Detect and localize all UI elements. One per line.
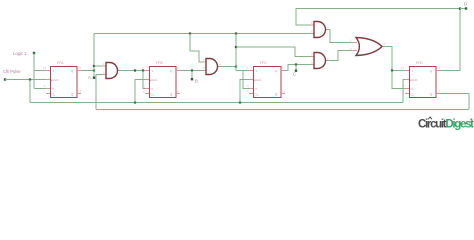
svg-text:C: C bbox=[293, 72, 296, 77]
svg-text:2: 2 bbox=[403, 90, 405, 94]
svg-text:6: 6 bbox=[311, 30, 313, 34]
svg-text:3: 3 bbox=[384, 42, 386, 46]
wire D terminal spur bbox=[460, 8, 466, 10]
svg-text:K: K bbox=[53, 87, 55, 91]
wire A vertical up bbox=[93, 34, 95, 71]
svg-text:CL: CL bbox=[52, 93, 56, 97]
wire AND4 output to OR input2 bbox=[325, 51, 352, 61]
junction clock bus at FFB riser bbox=[134, 101, 136, 103]
wire A branch to AND1 input1 bbox=[94, 65, 102, 67]
svg-text:2: 2 bbox=[246, 66, 248, 70]
flip-flop FFA box bbox=[43, 61, 82, 98]
junction AND2 out joins vertical bbox=[235, 65, 237, 67]
node D terminal dot bbox=[465, 7, 467, 9]
svg-text:1: 1 bbox=[403, 84, 405, 88]
wire FFB J-K tie bbox=[143, 71, 145, 89]
flip-flop FFC box bbox=[246, 61, 286, 98]
svg-text:1: 1 bbox=[103, 62, 105, 66]
node A terminal dot bbox=[93, 77, 95, 79]
wire QB to AND2 input2 bbox=[180, 70, 202, 72]
junction AB takeoff on vertical bbox=[235, 46, 237, 48]
junction clock bus at FFC riser bbox=[239, 101, 241, 103]
node Logic 1 terminal dot bbox=[33, 52, 35, 54]
svg-text:15: 15 bbox=[282, 90, 286, 94]
wire Clk Pulse to FFA CLK bbox=[5, 79, 46, 81]
svg-text:Clk Pulse: Clk Pulse bbox=[3, 69, 21, 74]
wire A drop to AND2 input1 bbox=[190, 34, 202, 63]
svg-text:K: K bbox=[256, 87, 258, 91]
svg-text:5: 5 bbox=[203, 58, 205, 62]
svg-text:2: 2 bbox=[103, 71, 105, 75]
node A terminal stub bbox=[93, 71, 95, 78]
wire clock riser FFC bbox=[240, 80, 249, 103]
and-gate U1 (A and Dbar) bbox=[102, 62, 121, 79]
svg-text:3: 3 bbox=[119, 67, 121, 71]
and-gate U2 (A and B) bbox=[202, 58, 221, 75]
junction A-line tap for AND2 bbox=[189, 32, 191, 34]
junction AND1 out at FFB tie bbox=[142, 69, 144, 71]
svg-text:FFD: FFD bbox=[416, 61, 423, 65]
svg-text:6: 6 bbox=[203, 67, 205, 71]
node Clk Pulse terminal dot bbox=[4, 78, 6, 80]
svg-text:10: 10 bbox=[143, 90, 147, 94]
wire FFC J-K tie bbox=[243, 71, 249, 89]
svg-text:▸CLK: ▸CLK bbox=[150, 78, 157, 82]
junction crossing clock riser bbox=[134, 69, 136, 71]
node B terminal stub bbox=[191, 71, 193, 80]
svg-text:FFA: FFA bbox=[57, 61, 64, 65]
svg-text:6: 6 bbox=[177, 90, 179, 94]
svg-text:2: 2 bbox=[44, 90, 46, 94]
junction C node bbox=[295, 63, 297, 65]
flip-flop FFD box bbox=[401, 61, 441, 98]
wire clock bus bbox=[30, 102, 403, 104]
svg-text:4: 4 bbox=[219, 63, 221, 67]
junction QA node bbox=[93, 69, 95, 71]
svg-text:3: 3 bbox=[247, 84, 249, 88]
svg-text:1: 1 bbox=[44, 84, 46, 88]
junction FFD J-K tie bbox=[391, 69, 393, 71]
svg-text:13: 13 bbox=[78, 90, 82, 94]
wire A distribution line top bbox=[94, 33, 310, 35]
wire vertical x236 down to FFC J bbox=[236, 34, 249, 71]
svg-text:1: 1 bbox=[350, 39, 352, 43]
svg-text:D: D bbox=[464, 2, 467, 7]
svg-text:CircuitDigest: CircuitDigest bbox=[418, 119, 474, 131]
wire AND2 output to FFC feed vertical bbox=[218, 66, 236, 68]
svg-text:FFB: FFB bbox=[156, 61, 163, 65]
node B terminal dot bbox=[191, 78, 193, 80]
wire OR output to FFD J bbox=[382, 47, 405, 71]
wire FFD K tie bbox=[392, 71, 405, 89]
wire QC to AND4 input2 bbox=[285, 65, 311, 71]
wire D feedback top line bbox=[296, 9, 460, 26]
svg-text:1: 1 bbox=[282, 66, 284, 70]
junction A branch to AND1 bbox=[93, 65, 95, 67]
wire QA output bbox=[81, 70, 94, 72]
flip-flop FFB box bbox=[142, 61, 180, 98]
or-gate U5 bbox=[350, 38, 386, 56]
and-gate U4 (AB and C) bbox=[311, 53, 329, 69]
svg-text:5: 5 bbox=[311, 21, 313, 25]
svg-text:FFC: FFC bbox=[260, 61, 267, 65]
svg-text:K: K bbox=[412, 87, 414, 91]
logo CircuitDigest bbox=[418, 117, 474, 131]
junction clock branch bbox=[29, 78, 31, 80]
svg-text:9: 9 bbox=[143, 84, 145, 88]
wire AND1 output to FFB J bbox=[118, 70, 146, 72]
svg-text:12: 12 bbox=[78, 66, 82, 70]
svg-text:A: A bbox=[88, 75, 91, 80]
svg-text:14: 14 bbox=[43, 66, 47, 70]
node C terminal stub bbox=[295, 65, 297, 71]
svg-text:8: 8 bbox=[327, 57, 329, 61]
svg-text:4: 4 bbox=[247, 90, 249, 94]
svg-text:▸CLK: ▸CLK bbox=[410, 78, 417, 82]
wire AND3 output to OR input1 bbox=[325, 30, 352, 43]
node C terminal dot bbox=[295, 70, 297, 72]
junction D top bbox=[459, 7, 461, 9]
svg-text:14: 14 bbox=[401, 66, 405, 70]
svg-text:Logic 1: Logic 1 bbox=[13, 51, 27, 56]
svg-text:CL: CL bbox=[255, 93, 259, 97]
svg-text:10: 10 bbox=[311, 61, 315, 65]
svg-text:▸CLK: ▸CLK bbox=[51, 78, 58, 82]
svg-text:13: 13 bbox=[437, 90, 441, 94]
wire D-bar bus bottom bbox=[96, 109, 469, 111]
svg-text:9: 9 bbox=[311, 53, 313, 57]
svg-text:B: B bbox=[195, 79, 198, 84]
junction B node bbox=[191, 69, 193, 71]
svg-text:4: 4 bbox=[327, 26, 329, 30]
wire clock drop to bus bbox=[29, 80, 31, 103]
svg-text:5: 5 bbox=[177, 66, 179, 70]
wire Logic1 vertical to J and K of FFA bbox=[34, 53, 46, 89]
and-gate U3 (D and A) bbox=[310, 21, 329, 38]
wire D-bar riser to AND1 input2 bbox=[96, 75, 102, 110]
svg-text:▸CLK: ▸CLK bbox=[254, 78, 261, 82]
wire clock riser FFD bbox=[403, 80, 405, 103]
junction A-line tap at x236 bbox=[235, 32, 237, 34]
wire AB to AND4 input1 bbox=[236, 47, 311, 57]
svg-text:K: K bbox=[152, 87, 154, 91]
svg-text:CL: CL bbox=[151, 93, 155, 97]
svg-text:CL: CL bbox=[411, 93, 415, 97]
wire QD-bar to D-bar bus bbox=[440, 94, 469, 110]
svg-text:12: 12 bbox=[437, 66, 441, 70]
wire QD output to corner bbox=[440, 9, 460, 71]
wire clock riser FFB bbox=[135, 80, 145, 103]
